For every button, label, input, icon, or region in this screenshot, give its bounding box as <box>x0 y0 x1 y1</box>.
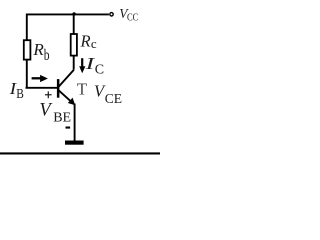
svg-text:V: V <box>39 100 53 120</box>
wire emitter vertical <box>74 104 76 141</box>
svg-text:T: T <box>77 80 88 99</box>
svg-text:R: R <box>80 31 91 50</box>
svg-text:C: C <box>95 63 104 78</box>
node junction dot at top rail <box>72 12 75 15</box>
wire base (to transistor base) <box>26 87 59 89</box>
svg-text:CE: CE <box>105 91 122 106</box>
terminal circle Vcc <box>110 13 113 16</box>
polarity minus VBE <box>66 127 71 129</box>
transistor Q1 collector line <box>59 70 74 87</box>
resistor Rb <box>24 40 31 59</box>
svg-text:c: c <box>91 36 97 51</box>
svg-text:B: B <box>16 87 24 102</box>
wire top rail <box>26 13 109 15</box>
transistor Q1 emitter line with arrow <box>59 90 72 102</box>
svg-text:b: b <box>44 47 50 64</box>
current arrow IC <box>81 58 83 67</box>
wire bottom rail <box>0 152 160 154</box>
svg-text:CC: CC <box>127 13 138 24</box>
wire Rc branch (top rail to collector) <box>73 14 75 70</box>
current arrow IB <box>32 77 41 79</box>
wire left branch (Vcc to base corner) <box>26 14 28 88</box>
transistor Q1 base bar <box>57 79 60 98</box>
resistor Rc <box>71 34 77 56</box>
ground bar <box>65 141 84 145</box>
polarity plus VBE <box>45 91 52 98</box>
svg-text:R: R <box>32 40 44 59</box>
svg-text:BE: BE <box>53 110 71 125</box>
